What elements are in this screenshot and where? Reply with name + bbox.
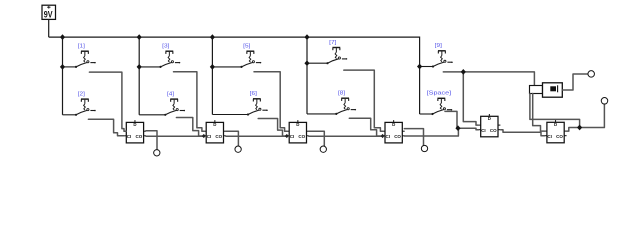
junction switch9 wire	[461, 69, 466, 75]
terminal circle T2	[601, 98, 608, 105]
wire U4 to terminal 4	[404, 129, 423, 146]
wire column 3 top contact	[212, 66, 241, 68]
sound chip U2 CI CO	[204, 120, 226, 143]
svg-text:CO: CO	[490, 128, 497, 133]
junction column 1 top switch tap	[60, 64, 65, 70]
svg-text:D: D	[488, 116, 491, 121]
wire column 4 vertical	[306, 37, 308, 114]
wire chain U4 CO to U5 CI	[404, 128, 478, 136]
svg-text:D: D	[133, 122, 136, 127]
svg-text:CI: CI	[547, 134, 552, 139]
push switch [1]	[75, 44, 96, 68]
svg-text:[4]: [4]	[167, 92, 175, 98]
junction column 2 top switch tap	[137, 64, 142, 70]
svg-text:[9]: [9]	[435, 43, 443, 49]
svg-text:D: D	[392, 122, 395, 127]
svg-text:CI: CI	[127, 134, 132, 139]
terminal circle 2	[235, 146, 241, 152]
wire switch9 to speaker	[443, 72, 534, 86]
wire chain U3 CO to U4 CI	[309, 135, 383, 137]
svg-text:[2]: [2]	[78, 92, 86, 98]
wire column 2 vertical	[138, 37, 140, 115]
wire column 3 vertical	[211, 37, 213, 114]
battery BAT1 9V	[42, 5, 56, 19]
svg-text:D: D	[213, 122, 216, 127]
junction U3 CI	[285, 134, 289, 138]
wire switchSpace to chain junction	[445, 111, 457, 128]
terminal circle 1	[154, 150, 160, 156]
svg-text:[5]: [5]	[243, 44, 251, 50]
push switch [9]	[432, 43, 453, 67]
wire U6 to terminal T2	[567, 104, 605, 131]
push switch [3]	[159, 44, 180, 68]
svg-text:D: D	[296, 122, 299, 127]
push switch [6]	[247, 91, 268, 115]
wire speaker tab A to junction	[530, 94, 580, 128]
junction bus column 1	[60, 34, 65, 40]
wire U2 to terminal 2	[226, 131, 239, 146]
junction column 4 top switch tap	[304, 60, 309, 66]
svg-text:CO: CO	[136, 134, 143, 139]
wire U3 to terminal 3	[309, 131, 325, 146]
svg-text:CI: CI	[290, 134, 295, 139]
svg-text:CO: CO	[298, 134, 305, 139]
terminal circle 3	[320, 146, 326, 152]
wire switch3 to U2 top-left pin	[174, 72, 204, 132]
wire +V bus	[49, 37, 420, 114]
junction U2 CI	[202, 134, 206, 138]
svg-text:CO: CO	[394, 134, 401, 139]
wire column 2 top contact	[139, 66, 160, 68]
svg-text:CO: CO	[556, 134, 563, 139]
wire switch2 to U1 CI	[88, 119, 124, 136]
wire switch4 to U2 CI	[176, 118, 203, 137]
push switch [Space]	[427, 91, 453, 115]
push switch [4]	[164, 92, 185, 116]
svg-text:CI: CI	[481, 128, 486, 133]
sound chip U4 CI CO	[383, 120, 405, 143]
svg-text:CI: CI	[386, 134, 391, 139]
wire speaker to terminal T1	[562, 74, 588, 90]
wire column 1 vertical	[62, 37, 64, 115]
speaker LS1	[530, 83, 563, 97]
terminal circle 4	[421, 145, 427, 151]
junction bus column 2	[137, 34, 142, 40]
sound chip U5 CI CO	[478, 114, 500, 137]
sound chip U6 CI CO	[545, 120, 567, 143]
svg-text:CI: CI	[207, 134, 212, 139]
junction bus column 4	[304, 34, 309, 40]
svg-text:D: D	[554, 122, 557, 127]
junction column 5 top switch tap	[417, 64, 422, 70]
wire chain U5 CO to U6 CI	[501, 130, 545, 136]
wire speaker tab B to U6 top-left pin	[533, 94, 545, 132]
junction U4 CI	[381, 134, 385, 138]
wire chain U1 CO to U2 CI	[146, 135, 204, 137]
junction bus column 3	[210, 34, 215, 40]
wire chain U2 CO to U3 CI	[226, 135, 287, 137]
svg-text:[3]: [3]	[162, 44, 170, 50]
wire column 3 bottom contact	[212, 114, 248, 116]
wire switch9 branch to U5 top-left pin	[463, 72, 478, 125]
terminal circle T1	[588, 71, 595, 78]
wire U1 to terminal 1	[146, 131, 157, 150]
svg-text:CO: CO	[215, 134, 222, 139]
sound chip U3 CI CO	[287, 120, 309, 143]
svg-text:[8]: [8]	[338, 91, 346, 97]
wire battery to bus	[48, 19, 50, 37]
wire column 1 top contact	[63, 66, 77, 68]
push switch [7]	[326, 40, 347, 64]
push switch [2]	[75, 92, 96, 116]
wire switch7 to U4 top-left pin	[344, 70, 383, 131]
wire column 4 top contact	[307, 62, 328, 64]
svg-text:[7]: [7]	[329, 40, 337, 46]
wire switch8 to U4 CI	[349, 118, 382, 136]
junction U6 T2 tap	[577, 125, 582, 131]
svg-text:9V: 9V	[44, 9, 53, 19]
wire column 4 bottom contact	[307, 113, 336, 115]
push switch [8]	[335, 91, 356, 115]
junction column 3 top switch tap	[210, 64, 215, 70]
svg-text:[1]: [1]	[78, 44, 86, 50]
push switch [5]	[240, 44, 261, 68]
svg-text:[Space]: [Space]	[427, 91, 452, 97]
wire column 1 bottom contact	[63, 114, 77, 116]
wire switch6 to U3 CI	[258, 119, 287, 137]
svg-text:[6]: [6]	[250, 91, 258, 97]
sound chip U1 CI CO	[124, 120, 146, 143]
junction chain and Space wire	[455, 125, 460, 131]
wire column 2 bottom contact	[139, 114, 165, 116]
wire column 5 bottom contact	[420, 113, 433, 115]
wire switch5 to U3 top-left pin	[254, 72, 287, 131]
wire column 5 top contact	[420, 66, 433, 68]
wire switch1 to U1 top-left pin	[89, 72, 126, 131]
